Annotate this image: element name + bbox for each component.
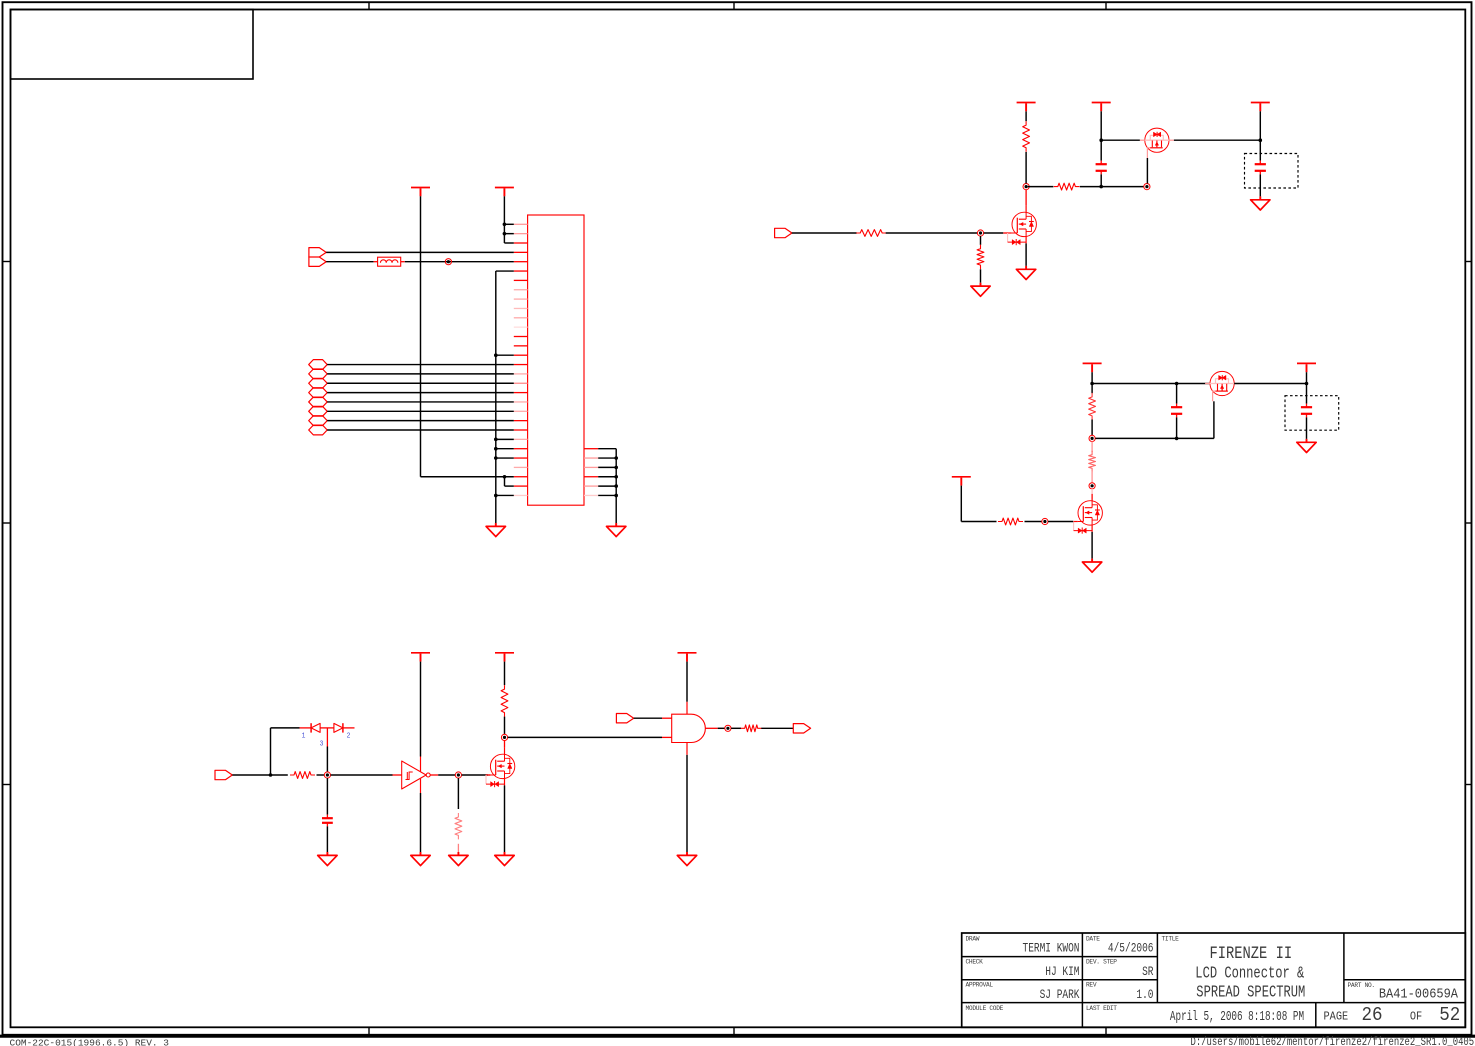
svg-text:April 5, 2006 8:18:08 PM: April 5, 2006 8:18:08 PM xyxy=(1170,1008,1304,1024)
svg-text:OF: OF xyxy=(1410,1011,1422,1024)
svg-text:D:/users/mobile62/mentor/firen: D:/users/mobile62/mentor/firenze2/firenz… xyxy=(1191,1036,1475,1046)
svg-text:4/5/2006: 4/5/2006 xyxy=(1108,943,1154,957)
svg-text:COM-22C-015(1996.6.5) REV. 3: COM-22C-015(1996.6.5) REV. 3 xyxy=(10,1038,170,1046)
svg-text:52: 52 xyxy=(1439,1005,1460,1027)
svg-text:APPROVAL: APPROVAL xyxy=(966,982,994,989)
svg-text:LCD Connector &: LCD Connector & xyxy=(1195,965,1304,983)
svg-text:SPREAD SPECTRUM: SPREAD SPECTRUM xyxy=(1196,984,1305,1002)
svg-text:PAGE: PAGE xyxy=(1324,1011,1349,1024)
svg-text:DRAW: DRAW xyxy=(966,935,980,942)
svg-text:1: 1 xyxy=(302,731,306,739)
svg-text:2: 2 xyxy=(347,731,351,739)
svg-text:26: 26 xyxy=(1361,1005,1382,1027)
svg-text:BA41-00659A: BA41-00659A xyxy=(1379,986,1458,1002)
svg-text:DATE: DATE xyxy=(1086,935,1100,942)
svg-text:TITLE: TITLE xyxy=(1162,936,1180,943)
svg-text:MODULE CODE: MODULE CODE xyxy=(966,1005,1004,1012)
svg-text:SR: SR xyxy=(1142,966,1154,980)
svg-text:3: 3 xyxy=(320,739,324,747)
svg-text:CHECK: CHECK xyxy=(966,959,984,966)
svg-text:1.0: 1.0 xyxy=(1136,989,1153,1003)
svg-text:HJ KIM: HJ KIM xyxy=(1045,966,1079,980)
svg-text:REV: REV xyxy=(1086,982,1097,989)
svg-text:TERMI KWON: TERMI KWON xyxy=(1023,943,1080,957)
svg-text:SJ PARK: SJ PARK xyxy=(1040,989,1080,1003)
svg-text:FIRENZE II: FIRENZE II xyxy=(1210,943,1293,963)
svg-text:PART NO.: PART NO. xyxy=(1348,982,1375,989)
svg-text:LAST EDIT: LAST EDIT xyxy=(1086,1005,1117,1012)
svg-text:DEV. STEP: DEV. STEP xyxy=(1086,959,1117,966)
